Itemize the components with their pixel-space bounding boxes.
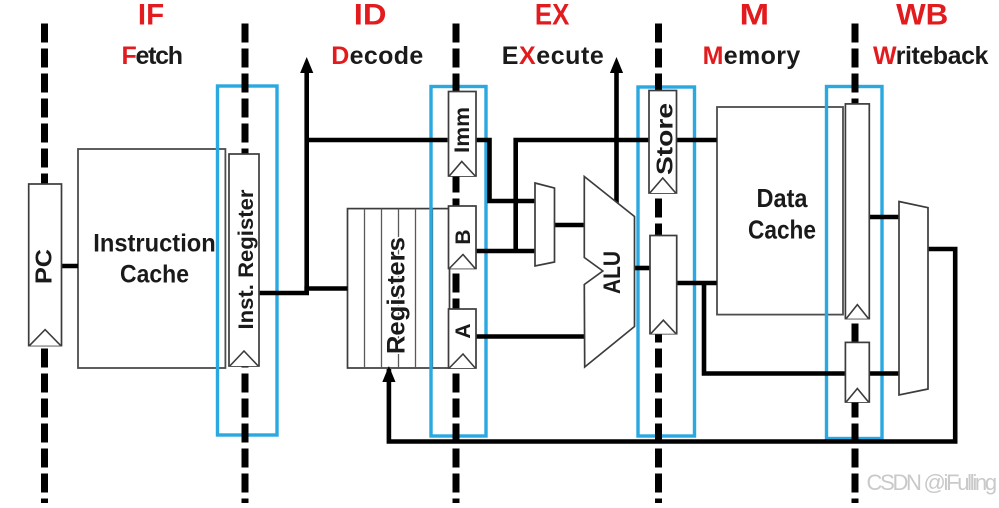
svg-text:ALU: ALU bbox=[599, 251, 626, 294]
svg-text:EXecute: EXecute bbox=[502, 42, 605, 70]
svg-text:B: B bbox=[452, 229, 475, 244]
svg-text:M: M bbox=[740, 0, 770, 32]
svg-text:Instruction: Instruction bbox=[93, 230, 216, 258]
svg-text:CSDN @iFulling: CSDN @iFulling bbox=[867, 470, 996, 495]
svg-text:Cache: Cache bbox=[120, 261, 189, 289]
svg-text:Fetch: Fetch bbox=[122, 42, 182, 70]
svg-text:Writeback: Writeback bbox=[873, 42, 989, 70]
svg-text:Memory: Memory bbox=[703, 42, 801, 70]
svg-text:Cache: Cache bbox=[748, 215, 816, 245]
svg-text:IF: IF bbox=[138, 0, 164, 32]
svg-text:Imm: Imm bbox=[451, 107, 474, 153]
svg-text:Data: Data bbox=[757, 183, 808, 213]
svg-text:Registers: Registers bbox=[383, 237, 411, 354]
svg-text:WB: WB bbox=[896, 0, 948, 32]
svg-text:Decode: Decode bbox=[331, 42, 423, 70]
svg-text:EX: EX bbox=[535, 0, 570, 32]
svg-text:ID: ID bbox=[354, 0, 387, 32]
svg-text:A: A bbox=[452, 323, 475, 338]
svg-text:Store: Store bbox=[652, 103, 678, 175]
svg-text:PC: PC bbox=[31, 249, 57, 284]
svg-text:Inst. Register: Inst. Register bbox=[235, 190, 258, 330]
